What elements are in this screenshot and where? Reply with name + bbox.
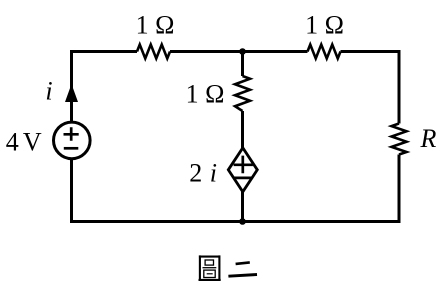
svg-text:R: R <box>420 124 437 153</box>
node: bottom junction dot <box>239 218 246 225</box>
glyph 二 top bar <box>236 262 250 264</box>
glyph 二 bottom bar <box>228 275 257 277</box>
svg-text:4 V: 4 V <box>6 127 42 156</box>
glyph 圖 inner top small box <box>205 260 213 265</box>
dependent source 2i diamond <box>228 148 257 192</box>
current arrow i <box>65 84 78 102</box>
svg-text:i: i <box>45 77 52 106</box>
voltage source V1 circle <box>54 122 91 159</box>
wire: top-right corner + right vertical <box>341 52 400 124</box>
glyph 圖 bottom inner mark <box>207 273 213 275</box>
dependent source minus sign <box>234 177 252 180</box>
voltage source plus sign <box>64 127 79 141</box>
svg-text:1 Ω: 1 Ω <box>186 80 225 109</box>
resistor 1ohm top-right <box>308 45 341 59</box>
wire: top-left horizontal + left vertical down to source <box>72 52 138 123</box>
wire: middle branch bottom stub <box>241 191 244 222</box>
wire: right vertical below R + bottom wire <box>72 155 400 222</box>
dependent source plus sign <box>234 156 253 174</box>
node: top junction dot <box>239 48 246 55</box>
resistor R (right) <box>392 124 407 155</box>
svg-text:2 i: 2 i <box>189 159 217 188</box>
glyph 圖 bottom box <box>204 270 215 277</box>
wire: top middle segment <box>170 50 308 53</box>
glyph 圖 middle bar <box>203 267 217 269</box>
voltage source minus sign <box>64 147 79 150</box>
svg-text:1 Ω: 1 Ω <box>305 11 344 40</box>
resistor 1ohm top-left <box>137 45 170 59</box>
glyph 圖 outer box <box>199 255 221 281</box>
resistor 1ohm middle vertical <box>235 76 250 111</box>
wire: middle branch top stub <box>241 52 244 77</box>
wire: middle branch between resistor and diamond <box>241 111 244 149</box>
svg-text:1 Ω: 1 Ω <box>136 11 175 40</box>
caption 圖二 (drawn glyphs) <box>199 255 258 281</box>
